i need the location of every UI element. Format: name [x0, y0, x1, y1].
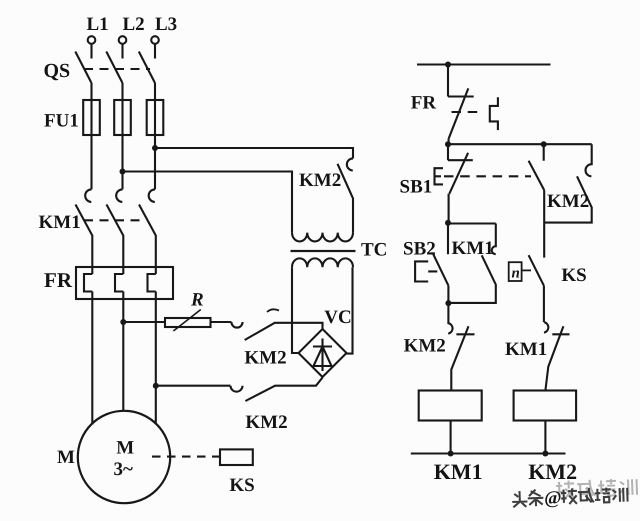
pushbutton SB1 NO contact [529, 144, 545, 222]
transformer TC secondary winding [292, 258, 353, 267]
svg-text:FR: FR [44, 268, 73, 292]
contactor KM1 self-hold contact [448, 224, 495, 303]
node junction coil KM1 bottom [448, 451, 454, 457]
dashed link motor to KS sensor [152, 456, 220, 458]
FR linkage dashed [452, 111, 482, 113]
wire fuses to KM1 [92, 135, 156, 189]
svg-text:VC: VC [324, 307, 351, 328]
svg-text:KM1: KM1 [452, 238, 494, 259]
contactor KM1 NC interlock [544, 322, 570, 390]
thermal relay FR NC contact [448, 65, 474, 145]
svg-text:QS: QS [44, 60, 71, 82]
SB1 operator E [435, 168, 444, 184]
node junction line2 right [541, 141, 547, 147]
FR heater element 3 [148, 274, 156, 423]
svg-text:KM1: KM1 [505, 339, 547, 360]
KM1 linkage dashed [84, 219, 146, 221]
node junction top supply [445, 62, 451, 68]
node junction line2 left [445, 141, 451, 147]
contactor KM1 main pole 1 [76, 189, 93, 274]
node junction L2 to TC primary [120, 169, 126, 175]
node L2 terminal [119, 14, 145, 44]
contact KM2 braking 2 [231, 378, 323, 402]
coil KM2 [514, 391, 577, 454]
control circuit top supply line [417, 63, 551, 65]
wire TC secondary right to rectifier [347, 267, 353, 353]
rectifier VC bridge [299, 329, 347, 377]
svg-text:3~: 3~ [114, 459, 134, 480]
wire to resistor [123, 321, 165, 323]
svg-text:SB2: SB2 [403, 239, 436, 260]
resistor R [165, 310, 211, 332]
KS n-box [509, 262, 531, 281]
transformer TC primary winding [292, 233, 353, 242]
wire QS to fuses [92, 83, 156, 100]
svg-text:KM2: KM2 [528, 459, 577, 484]
fuse FU1 pole 1 [83, 100, 100, 135]
motor text M 3~ [114, 437, 135, 480]
fuse FU1 pole 3 [147, 100, 164, 135]
svg-text:KS: KS [561, 265, 586, 286]
node junction L3 to KM2 braking 2 [153, 383, 159, 389]
contactor KM1 main pole 2 [107, 189, 124, 274]
speed sensor KS box [220, 449, 253, 465]
QS linkage dashed [84, 68, 150, 70]
coil KM1 [419, 391, 482, 454]
node junction L2 to resistor [120, 319, 126, 325]
svg-text:M: M [57, 447, 75, 468]
svg-text:KM2: KM2 [299, 170, 341, 191]
contactor KM2 self-hold contact [544, 144, 592, 222]
contactor KM1 main pole 3 [139, 189, 156, 274]
svg-text:FR: FR [411, 93, 437, 114]
motor M circle [78, 411, 170, 503]
svg-text:KM2: KM2 [404, 336, 446, 357]
node junction SB1 bottom [445, 220, 451, 226]
svg-text:M: M [116, 437, 134, 458]
control line 2 [448, 143, 592, 145]
node junction SB2 bottom [445, 300, 451, 306]
wire TC secondary left to rectifier [292, 267, 299, 353]
svg-text:SB1: SB1 [400, 177, 433, 198]
svg-text:KM1: KM1 [39, 212, 81, 233]
FR heater paddle symbol [490, 97, 498, 130]
FR heater element 1 [84, 274, 92, 424]
svg-text:KM1: KM1 [434, 459, 483, 484]
wire second horizontal to TC primary left [123, 172, 293, 233]
svg-text:KS: KS [229, 475, 254, 496]
SB1 linkage dashed [444, 175, 531, 177]
svg-text:KM2: KM2 [244, 348, 286, 369]
node L1 terminal [87, 14, 109, 44]
switch QS pole 2 [106, 44, 122, 83]
node junction L3 to control branch [152, 145, 158, 151]
wire to KM1 self-hold [448, 222, 496, 224]
watermark 头条@技成培训 (dark) [512, 484, 628, 509]
svg-text:L1: L1 [87, 14, 109, 35]
node L3 terminal [151, 14, 177, 44]
svg-text:@: @ [544, 487, 562, 509]
svg-text:L2: L2 [123, 14, 145, 35]
switch QS pole 1 [75, 44, 91, 83]
svg-text:FU1: FU1 [44, 111, 79, 132]
watermark ghost 技成培训 (light gray) [556, 478, 637, 498]
contact KM2 braking 1 [231, 309, 322, 340]
contact KM2 transformer primary [338, 158, 354, 232]
speed relay KS contact [529, 223, 545, 323]
control bottom line [411, 452, 566, 454]
svg-text:n: n [512, 266, 520, 282]
contactor KM2 NC interlock [448, 303, 474, 390]
transformer TC core [291, 250, 356, 252]
switch QS pole 3 [139, 44, 155, 83]
svg-text:KM2: KM2 [245, 412, 287, 433]
wire top horizontal to KM2 contact [155, 148, 353, 158]
pushbutton SB1 NC [448, 144, 473, 223]
svg-text:KM2: KM2 [547, 191, 589, 212]
fuse FU1 pole 2 [114, 100, 131, 135]
SB2 operator E [415, 261, 437, 281]
thermal relay FR box [76, 267, 173, 299]
svg-text:TC: TC [361, 240, 387, 261]
wire resistor to KM2 contact [211, 321, 232, 323]
FR heater element 2 [115, 274, 123, 411]
svg-text:L3: L3 [155, 14, 177, 35]
pushbutton SB2 NO [433, 224, 448, 304]
wire to KM2 braking 2 [156, 385, 231, 387]
node junction coil KM2 bottom [542, 451, 548, 457]
svg-text:R: R [190, 290, 204, 311]
